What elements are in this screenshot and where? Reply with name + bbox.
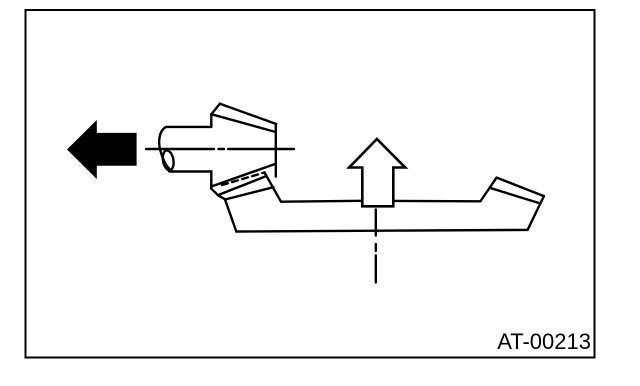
cone part: step bottom vertical [210, 171, 212, 188]
horizontal dash-dot centerline [146, 148, 294, 150]
cone part: cylinder boss bottom edge [169, 170, 211, 172]
bracket: top edge left of arrow [281, 200, 362, 203]
hidden edge dashed line [222, 173, 265, 186]
vertical dash-dot centerline [375, 210, 377, 283]
bracket: left flange end cut [265, 173, 282, 202]
figure number label AT-00213 [497, 329, 591, 355]
cone part: step top vertical [210, 114, 212, 127]
cone part: cylinder left end cap arc [159, 127, 170, 170]
cone part: top outer edge [220, 104, 276, 124]
bracket: top edge right of arrow [393, 200, 480, 203]
cone part: bottom outer edge [220, 176, 267, 195]
bracket: right flange top edge [497, 178, 544, 197]
black arrow (pointing left) [67, 120, 137, 179]
bracket: left flange bottom edge [225, 187, 274, 199]
bracket: right flange inner edge [490, 188, 539, 203]
cone part: top chamfer [211, 104, 220, 115]
bracket: left edge [225, 199, 236, 231]
cone part: right end vertical edge [275, 124, 277, 177]
cone part: bottom spout edge [211, 189, 225, 200]
bracket: bottom edge [236, 230, 527, 232]
cone part: cylinder end small ellipse [161, 150, 175, 172]
bracket: right end edge [528, 196, 544, 230]
cone part: top inner edge [211, 114, 275, 132]
cone part: cylinder boss top edge [166, 126, 211, 128]
up arrow (outline) [349, 139, 405, 206]
bracket: right kink edge [481, 178, 497, 201]
cone part: bottom inner edge [211, 164, 275, 187]
